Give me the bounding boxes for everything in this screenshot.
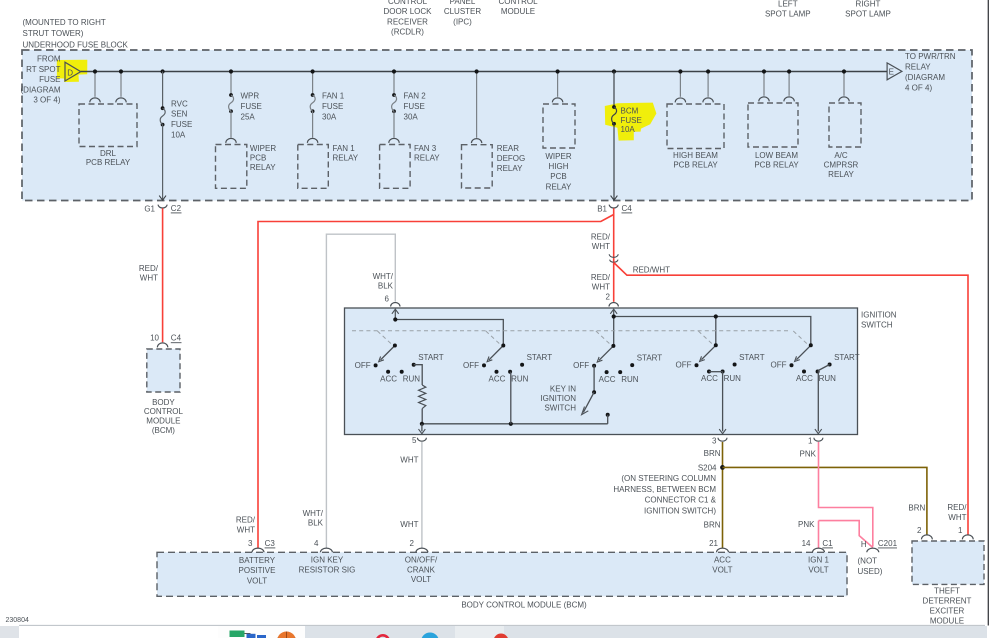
wire bank2 RUN to bottom rail (510, 372, 512, 424)
label BCM FUSE 10A (621, 106, 642, 134)
svg-text:RELAY: RELAY (333, 154, 359, 163)
svg-text:WHT/: WHT/ (373, 272, 394, 281)
svg-text:FAN 1: FAN 1 (322, 92, 345, 101)
svg-text:START: START (739, 353, 765, 362)
label LOW BEAM PCB RELAY (754, 151, 799, 170)
svg-text:H: H (861, 540, 867, 549)
svg-text:RUN: RUN (511, 374, 529, 383)
wire to A/C relay (843, 72, 845, 96)
svg-text:RUN: RUN (819, 374, 837, 383)
svg-text:C1: C1 (822, 539, 833, 548)
svg-text:OFF: OFF (573, 361, 589, 370)
pin 5 connector (412, 436, 426, 445)
svg-text:30A: 30A (404, 113, 419, 122)
svg-text:RED/: RED/ (947, 503, 967, 512)
label panel cluster (IPC) (444, 0, 482, 26)
svg-text:EXCITER: EXCITER (930, 607, 965, 616)
svg-text:WHT: WHT (592, 242, 610, 251)
svg-text:(DIAGRAM: (DIAGRAM (21, 85, 61, 94)
svg-text:IGN 1: IGN 1 (808, 556, 829, 565)
wire rail pin2 to switch banks 3-5 (614, 317, 811, 346)
underhood fuse block (22, 50, 972, 201)
svg-text:RED/: RED/ (139, 264, 159, 273)
svg-text:PNK: PNK (798, 520, 815, 529)
wire to DRL relay pin 1 (94, 72, 96, 97)
svg-text:FUSE: FUSE (404, 102, 425, 111)
svg-text:2: 2 (917, 526, 922, 535)
svg-text:ACC: ACC (380, 374, 397, 383)
label REAR DEFOG RELAY (497, 144, 525, 173)
splice S204 (698, 463, 725, 472)
svg-text:G1: G1 (144, 204, 155, 213)
svg-text:3: 3 (248, 539, 253, 548)
svg-text:FROM: FROM (37, 55, 61, 64)
svg-text:WHT: WHT (948, 513, 966, 522)
svg-text:OFF: OFF (771, 361, 787, 370)
wire bank5 RUN to pin 1 (815, 371, 822, 434)
fuse RVC SEN 10A (161, 106, 165, 110)
label underhood fuse block location (23, 18, 129, 49)
wire WHT/BLK BCM pin 4 to ignition pin 6 (326, 234, 395, 548)
svg-text:2: 2 (606, 293, 611, 302)
svg-text:OFF: OFF (676, 361, 692, 370)
wire RED/WHT to ignition switch pin 2 (613, 263, 615, 302)
pin 2 connector (609, 303, 618, 307)
switch bank 1 (OFF/ACC/RUN/START) (355, 344, 444, 384)
svg-text:PCB: PCB (550, 172, 566, 181)
highlight on BCM fuse (605, 103, 657, 141)
svg-text:10A: 10A (621, 125, 636, 134)
node E to PWR/TRN relay (887, 63, 902, 80)
resistor (ign key resistor) (419, 385, 426, 409)
wire WPR fuse to relay (230, 111, 232, 137)
fuse FAN 1 (311, 93, 315, 97)
label WHT/BLK at pin 6 (373, 272, 394, 304)
svg-text:1: 1 (958, 526, 963, 535)
svg-text:(NOT: (NOT (858, 556, 878, 565)
svg-text:RIGHT: RIGHT (856, 0, 881, 8)
label from RT SPOT fuse (21, 55, 61, 105)
svg-text:THEFT: THEFT (934, 587, 960, 596)
svg-text:RELAY: RELAY (250, 163, 276, 172)
svg-text:E: E (889, 67, 894, 76)
svg-text:C201: C201 (878, 539, 898, 548)
relay A/C CMPRSR (829, 97, 861, 147)
svg-text:A/C: A/C (834, 151, 848, 160)
taskbar icon red circle (494, 634, 509, 638)
label (NOT USED) (858, 556, 883, 575)
label FAN 2 FUSE 30A (404, 92, 427, 122)
svg-text:VOLT: VOLT (712, 565, 732, 574)
svg-text:LEFT: LEFT (778, 0, 798, 8)
svg-text:ACC: ACC (489, 374, 506, 383)
svg-text:WPR: WPR (241, 92, 260, 101)
svg-text:STRUT TOWER): STRUT TOWER) (23, 29, 84, 38)
svg-text:SWITCH: SWITCH (544, 404, 576, 413)
svg-text:4 OF 4): 4 OF 4) (905, 84, 932, 93)
label ON/OFF/CRANK VOLT (405, 556, 438, 585)
wire rail branch to bank 4 (715, 317, 717, 346)
connector G1 C2 (144, 204, 181, 214)
wire RED/WHT long branch to theft module (614, 263, 968, 535)
switch bank 3 (573, 344, 662, 384)
wire to low beam relay pin 1 (763, 72, 765, 96)
svg-text:HIGH BEAM: HIGH BEAM (673, 151, 718, 160)
svg-text:BLK: BLK (378, 282, 394, 291)
label control module (498, 0, 538, 16)
svg-text:1: 1 (808, 437, 813, 446)
node D from RT SPOT FUSE (65, 62, 81, 81)
svg-text:ON/OFF/: ON/OFF/ (405, 556, 438, 565)
key-in switch arm (582, 392, 595, 414)
svg-text:MODULE: MODULE (146, 417, 180, 426)
svg-text:WHT: WHT (592, 283, 610, 292)
relay REAR DEFOG (462, 139, 493, 188)
label RED/WHT 2 (591, 273, 611, 302)
highlight on D arrow (57, 60, 88, 82)
svg-text:RED/: RED/ (591, 233, 611, 242)
wire resistor to bottom rail (421, 409, 423, 424)
label WIPER PCB RELAY (250, 144, 276, 172)
svg-text:RECEIVER: RECEIVER (387, 17, 428, 26)
svg-text:BATTERY: BATTERY (239, 556, 276, 565)
svg-text:SEN: SEN (171, 110, 188, 119)
label left spot lamp (765, 0, 811, 19)
svg-text:PNK: PNK (800, 450, 817, 459)
svg-text:C2: C2 (171, 204, 182, 213)
svg-text:REAR: REAR (497, 144, 519, 153)
wire to rear defog relay (476, 72, 478, 138)
svg-text:DETERRENT: DETERRENT (923, 597, 972, 606)
svg-text:RUN: RUN (724, 374, 742, 383)
svg-text:WHT: WHT (140, 274, 158, 283)
svg-text:BODY CONTROL MODULE (BCM): BODY CONTROL MODULE (BCM) (461, 600, 587, 609)
svg-text:RT SPOT: RT SPOT (26, 65, 60, 74)
svg-text:WHT/: WHT/ (303, 509, 324, 518)
relay WIPER HIGH PCB (543, 98, 575, 148)
svg-text:(ON STEERING COLUMN: (ON STEERING COLUMN (621, 474, 716, 483)
svg-text:SPOT LAMP: SPOT LAMP (845, 10, 891, 19)
svg-text:FAN 2: FAN 2 (404, 92, 427, 101)
svg-text:WHT: WHT (237, 525, 255, 534)
label IGN 1 VOLT (808, 556, 829, 575)
svg-text:FUSE: FUSE (171, 120, 192, 129)
svg-text:RESISTOR SIG: RESISTOR SIG (299, 565, 356, 574)
fuse FAN 2 (392, 93, 396, 97)
svg-text:2: 2 (410, 539, 415, 548)
wire RED/WHT branch to BCM pin 3 (258, 215, 614, 549)
wire bus to WPR fuse (230, 72, 232, 96)
wire to high beam relay pin 2 (707, 72, 709, 97)
wire FAN 2 fuse to relay (393, 111, 395, 137)
wire bottom rail (422, 423, 608, 425)
wire bus to RVC SEN fuse (162, 72, 164, 109)
svg-text:RELAY: RELAY (497, 164, 523, 173)
wire RED/WHT C2 to BCM pin 10 (162, 208, 164, 342)
wire to DRL relay pin 2 (120, 72, 122, 97)
svg-text:CMPRSR: CMPRSR (824, 161, 859, 170)
svg-text:(MOUNTED TO RIGHT: (MOUNTED TO RIGHT (23, 18, 106, 27)
svg-text:START: START (418, 353, 444, 362)
svg-text:TO PWR/TRN: TO PWR/TRN (905, 52, 956, 61)
label ACC VOLT (712, 556, 732, 575)
svg-text:10: 10 (150, 334, 159, 343)
svg-text:USED): USED) (858, 567, 883, 576)
svg-text:(BCM): (BCM) (152, 426, 175, 435)
svg-text:RELAY: RELAY (905, 63, 931, 72)
svg-text:BRN: BRN (704, 520, 721, 529)
svg-text:WIPER: WIPER (545, 152, 571, 161)
relay LOW BEAM PCB (748, 97, 798, 147)
svg-text:PANEL: PANEL (450, 0, 476, 6)
svg-text:BCM: BCM (621, 106, 639, 115)
svg-text:CRANK: CRANK (407, 565, 436, 574)
relay WIPER PCB (216, 138, 247, 188)
module BODY CONTROL MODULE (BCM) (157, 552, 847, 596)
svg-text:RELAY: RELAY (828, 170, 854, 179)
svg-text:30A: 30A (322, 113, 337, 122)
svg-text:FUSE: FUSE (39, 75, 60, 84)
svg-text:START: START (637, 354, 663, 363)
svg-text:OFF: OFF (355, 361, 371, 370)
dashed mechanical linkage (352, 331, 808, 345)
svg-text:ACC: ACC (796, 374, 813, 383)
wire bank1 START to resistor (414, 365, 423, 385)
wire RVC fuse to connector C2 (162, 125, 164, 200)
svg-text:3: 3 (712, 437, 717, 446)
pin 4 connector (314, 539, 332, 552)
pin 2 connector (410, 539, 428, 552)
svg-text:LOW BEAM: LOW BEAM (755, 151, 798, 160)
label IGN KEY RESISTOR SIG (299, 556, 356, 575)
wire BRN pin 3 to BCM pin 21 (722, 442, 724, 548)
svg-text:HARNESS, BETWEEN BCM: HARNESS, BETWEEN BCM (613, 485, 716, 494)
svg-text:14: 14 (802, 539, 811, 548)
label WPR FUSE 25A (241, 92, 262, 122)
wire FAN 1 fuse to relay (312, 111, 314, 137)
svg-text:DEFOG: DEFOG (497, 154, 525, 163)
svg-text:C4: C4 (622, 204, 633, 213)
svg-text:FUSE: FUSE (322, 102, 343, 111)
junction dots on feed bus (93, 69, 846, 73)
label DRL PCB RELAY (86, 149, 131, 167)
inline connector in RED/WHT (609, 254, 618, 262)
label FAN 1 RELAY (333, 144, 359, 162)
svg-text:10A: 10A (171, 130, 186, 139)
svg-text:VOLT: VOLT (411, 575, 431, 584)
svg-text:CONTROL: CONTROL (498, 0, 538, 6)
relay FAN 3 (380, 138, 411, 188)
fuse WPR (229, 93, 233, 97)
wire bank5 START to RUN (818, 365, 829, 371)
pin 6 connector (391, 303, 400, 307)
svg-text:FUSE: FUSE (621, 116, 642, 125)
switch assembly IGNITION SWITCH (345, 308, 858, 435)
wire main feed bus (81, 71, 887, 73)
svg-text:C3: C3 (265, 539, 276, 548)
junction bank 4 rail (714, 314, 718, 318)
svg-text:BRN: BRN (908, 504, 925, 513)
wire bus to BCM fuse (613, 72, 615, 108)
svg-text:IGNITION SWITCH): IGNITION SWITCH) (644, 506, 716, 515)
wire bank4 ACC-RUN bar (709, 371, 723, 373)
svg-text:RVC: RVC (171, 99, 188, 108)
label RED/WHT (139, 264, 159, 283)
label WIPER HIGH PCB RELAY (545, 152, 572, 192)
svg-text:START: START (527, 353, 553, 362)
svg-text:CONNECTOR C1 &: CONNECTOR C1 & (645, 496, 717, 505)
svg-text:FAN 1: FAN 1 (333, 144, 356, 153)
taskbar strip (0, 625, 987, 638)
pin 3 connector (712, 437, 727, 446)
connector C201 pin H (not used) (861, 539, 898, 552)
svg-text:4: 4 (314, 539, 319, 548)
junction bottom rail bank 2 (509, 422, 513, 426)
taskbar icon blue circle (421, 633, 439, 638)
svg-text:WHT: WHT (400, 455, 418, 464)
key-in switch contact (606, 413, 610, 417)
svg-text:CONTROL: CONTROL (144, 407, 184, 416)
wire PNK to BCM pin 14 (818, 521, 820, 548)
wire to high beam relay pin 1 (679, 72, 681, 97)
label KEY IN IGNITION SWITCH (540, 385, 576, 413)
svg-text:PCB RELAY: PCB RELAY (86, 158, 131, 167)
svg-text:RED/: RED/ (591, 273, 611, 282)
switch bank 2 (463, 344, 552, 384)
wire pin 5 exit (419, 424, 426, 434)
module BCM (left) (147, 349, 180, 392)
svg-text:FUSE: FUSE (241, 102, 262, 111)
pin 1 connector (808, 437, 823, 446)
wire bank4 RUN to pin 3 (719, 372, 726, 434)
wire PNK branch through C201 (819, 521, 873, 548)
label control door lock receiver (RCDLR) (383, 0, 432, 36)
svg-text:ACC: ACC (714, 556, 731, 565)
svg-text:CONTROL: CONTROL (388, 0, 428, 6)
svg-text:230804: 230804 (6, 617, 29, 624)
relay HIGH BEAM PCB (667, 98, 724, 149)
svg-text:25A: 25A (241, 113, 256, 122)
relay FAN 1 (298, 138, 329, 188)
label to PWR/TRN relay (905, 52, 956, 92)
label RED/WHT at theft module (947, 503, 967, 522)
label S204 location note (613, 474, 716, 515)
label RVC SEN FUSE 10A (171, 99, 192, 139)
svg-text:PCB RELAY: PCB RELAY (673, 161, 718, 170)
wire bus to FAN 1 fuse (312, 72, 314, 96)
svg-text:SPOT LAMP: SPOT LAMP (765, 10, 811, 19)
svg-text:RED/WHT: RED/WHT (633, 265, 670, 274)
label THEFT DETERRENT EXCITER MODULE (923, 587, 972, 626)
wire rail pin6 to switch banks 1-2 (395, 320, 503, 346)
svg-text:WIPER: WIPER (250, 144, 276, 153)
label right spot lamp (845, 0, 891, 19)
svg-text:RUN: RUN (621, 375, 639, 384)
pin 14 connector C1 (802, 539, 834, 552)
svg-text:IGNITION: IGNITION (861, 310, 897, 319)
svg-text:IGNITION: IGNITION (540, 394, 576, 403)
svg-text:21: 21 (709, 539, 718, 548)
pin 3 connector C3 (248, 539, 275, 552)
junction pin6 rail (393, 317, 397, 321)
wire PNK pin 1 down (819, 442, 873, 547)
svg-text:(IPC): (IPC) (453, 17, 472, 26)
wire pin 6 into switch (392, 309, 399, 319)
svg-text:(RCDLR): (RCDLR) (391, 28, 424, 37)
svg-text:KEY IN: KEY IN (550, 385, 576, 394)
svg-text:DRL: DRL (100, 149, 117, 158)
svg-text:3 OF 4): 3 OF 4) (33, 96, 60, 105)
page right edge line (987, 0, 989, 626)
taskbar icon red ring (377, 635, 389, 638)
pin 10 connector C4 (150, 334, 181, 348)
label FAN 3 RELAY (414, 144, 440, 162)
svg-text:BRN: BRN (704, 449, 721, 458)
svg-text:HIGH: HIGH (549, 162, 569, 171)
label BODY CONTROL MODULE (BCM) (144, 398, 184, 435)
label BATTERY POSITIVE VOLT (239, 556, 276, 586)
taskbar icon flowchart (230, 631, 267, 638)
pin 21 connector (709, 539, 728, 552)
svg-text:6: 6 (385, 294, 390, 303)
svg-text:VOLT: VOLT (808, 565, 828, 574)
svg-text:FAN 3: FAN 3 (414, 144, 437, 153)
junction bottom rail pin 5 (420, 422, 424, 426)
svg-text:IGN KEY: IGN KEY (311, 556, 344, 565)
wire key-in contact to bottom rail (607, 415, 609, 424)
svg-text:DOOR LOCK: DOOR LOCK (383, 7, 432, 16)
module THEFT DETERRENT EXCITER (912, 526, 984, 585)
relay DRL PCB (79, 98, 137, 147)
svg-text:VOLT: VOLT (247, 576, 267, 585)
label HIGH BEAM PCB RELAY (673, 151, 718, 170)
svg-text:ACC: ACC (701, 374, 718, 383)
svg-text:RED/: RED/ (236, 515, 256, 524)
label RED/WHT at BCM pin 3 (236, 515, 256, 534)
key-in switch pivot (592, 390, 596, 394)
wire BRN S204 to theft module pin 2 (723, 467, 927, 534)
wire to wiper high relay (557, 72, 559, 97)
svg-text:CLUSTER: CLUSTER (444, 7, 482, 16)
wire BCM fuse to connector C4 (613, 124, 615, 200)
junction pin2 rail (612, 314, 616, 318)
svg-text:BLK: BLK (308, 518, 324, 527)
switch bank 5 (771, 343, 860, 383)
wire to low beam relay pin 2 (788, 72, 790, 96)
wire WHT pin 5 to BCM pin 2 (421, 442, 423, 548)
wire pin 2 into switch (610, 309, 617, 316)
taskbar icon basketball (277, 632, 296, 638)
svg-text:PCB: PCB (250, 154, 266, 163)
svg-text:WHT: WHT (400, 520, 418, 529)
svg-text:ACC: ACC (599, 375, 616, 384)
svg-text:RUN: RUN (403, 374, 421, 383)
svg-text:MODULE: MODULE (930, 616, 964, 625)
fuse BCM 10A (612, 105, 616, 109)
svg-text:C4: C4 (171, 334, 182, 343)
svg-text:(DIAGRAM: (DIAGRAM (905, 73, 945, 82)
label IGNITION SWITCH (861, 310, 897, 329)
label FAN 1 FUSE 30A (322, 92, 345, 122)
svg-text:POSITIVE: POSITIVE (239, 566, 276, 575)
switch bank 4 (676, 343, 765, 383)
svg-text:START: START (834, 353, 860, 362)
svg-text:BODY: BODY (152, 398, 175, 407)
svg-text:B1: B1 (597, 204, 607, 213)
wire bus to FAN 2 fuse (393, 72, 395, 96)
svg-text:RELAY: RELAY (414, 154, 440, 163)
svg-text:SWITCH: SWITCH (861, 321, 893, 330)
